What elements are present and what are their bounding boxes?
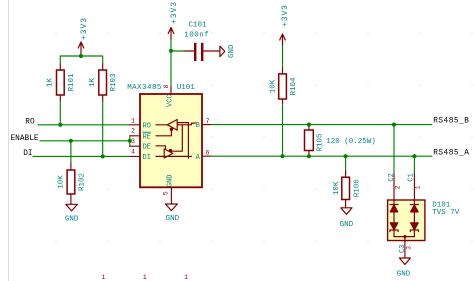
label RS485_B	[433, 118, 469, 126]
pin number 1 (bottom sheet, component cut off)	[184, 274, 188, 281]
svg-text:1: 1	[415, 185, 422, 189]
wire R104 to A line	[282, 105, 284, 157]
node junction D101-C2/B	[392, 123, 396, 127]
svg-text:DE: DE	[143, 144, 151, 152]
resistor R105	[305, 127, 376, 155]
node junction ENABLE/R102	[69, 139, 73, 143]
svg-text:3: 3	[131, 138, 135, 145]
node junction R105/B	[307, 123, 311, 127]
svg-text:R104: R104	[290, 77, 298, 96]
svg-text:2: 2	[394, 185, 401, 189]
wire A to R106	[345, 156, 347, 171]
svg-text:1: 1	[131, 117, 135, 124]
pin number 1 (bottom sheet, component cut off)	[101, 274, 105, 281]
transistor D101 TVS array body	[388, 200, 460, 241]
U101 pin 4 DI	[130, 148, 151, 162]
svg-text:120 (0.25W): 120 (0.25W)	[326, 138, 376, 146]
svg-text:VCC: VCC	[166, 94, 174, 107]
U101 pin 3 DE	[130, 138, 151, 151]
power +3V3 PWR3 (above R104)	[280, 4, 291, 46]
svg-text:RS485_B: RS485_B	[433, 118, 469, 126]
wire C101 left	[171, 50, 184, 52]
U101 pin 2 RE	[130, 128, 151, 142]
wire R103 to DI line	[102, 102, 104, 157]
svg-text:5: 5	[163, 191, 170, 195]
svg-text:GND: GND	[228, 44, 236, 58]
D101 pin C1	[407, 173, 421, 204]
wire A (pin6 to RS485_A)	[212, 155, 432, 157]
svg-text:GND: GND	[65, 216, 79, 224]
svg-text:C2: C2	[388, 173, 396, 181]
svg-text:+3V3: +3V3	[170, 1, 179, 24]
svg-text:RS485_A: RS485_A	[433, 150, 469, 158]
node junction D101-C1/A	[412, 154, 416, 158]
U101 internal DE link	[156, 146, 166, 149]
power +3V3 PWR2 (above U101 VCC)	[168, 1, 179, 40]
svg-text:RE: RE	[143, 133, 151, 141]
svg-text:+3V3: +3V3	[80, 17, 89, 40]
svg-text:DI: DI	[143, 154, 151, 162]
node junction ENABLE	[128, 139, 132, 143]
svg-text:1K: 1K	[89, 78, 97, 88]
U101 pin 7 B	[196, 118, 212, 130]
ground GND (below R106)	[340, 208, 354, 229]
wire RO	[38, 124, 130, 126]
U101 pin 6 A	[196, 149, 212, 161]
wire ENABLE to R102	[70, 141, 72, 164]
capacitor C101	[184, 22, 220, 61]
grid dots	[56, 33, 473, 242]
svg-text:1: 1	[143, 274, 147, 281]
svg-text:2: 2	[131, 128, 135, 135]
D101 internal common anode link	[394, 235, 414, 241]
svg-text:10K: 10K	[333, 181, 341, 195]
U101 pin 1 RO	[130, 117, 151, 130]
D101 diode bottom-right	[410, 223, 418, 237]
svg-text:100nf: 100nf	[184, 31, 209, 39]
pin number 1 (bottom sheet, component cut off)	[143, 274, 147, 281]
ground GND (below D101)	[397, 258, 411, 279]
svg-text:R103: R103	[110, 73, 118, 92]
svg-text:R105: R105	[317, 133, 325, 152]
U101 internal receiver triangle	[156, 120, 177, 131]
svg-text:DI: DI	[23, 150, 32, 158]
svg-text:1K: 1K	[47, 78, 55, 88]
U101 pin 5 GND	[163, 174, 175, 204]
svg-text:U101: U101	[177, 84, 196, 92]
svg-text:C1: C1	[407, 173, 415, 181]
D101 pin C3 (K)	[399, 241, 412, 259]
svg-text:3: 3	[405, 246, 412, 250]
svg-text:C101: C101	[189, 22, 208, 30]
svg-text:8: 8	[163, 84, 170, 88]
resistor R104	[270, 68, 298, 105]
node junction +3V3 rail	[79, 54, 83, 58]
label RS485_A	[433, 150, 469, 158]
svg-text:R106: R106	[354, 179, 362, 198]
D101 diode bottom-left	[390, 223, 398, 237]
wire ENABLE	[40, 140, 130, 142]
svg-text:R102: R102	[79, 173, 87, 191]
svg-text:10K: 10K	[270, 79, 278, 93]
op-amp U101 MAX3485 body	[127, 84, 202, 187]
svg-text:4: 4	[131, 148, 135, 155]
svg-text:RO: RO	[143, 122, 151, 130]
ground GND (below U101 pin 5)	[165, 204, 179, 223]
svg-text:GND: GND	[166, 215, 180, 223]
node junction R103/DI	[101, 154, 105, 158]
sheet frame left border	[8, 0, 10, 281]
svg-text:B: B	[196, 122, 200, 130]
svg-text:RO: RO	[25, 119, 35, 127]
D101 diode top-left	[390, 205, 398, 223]
ground GND (right of C101, pointing right)	[220, 44, 236, 58]
svg-text:6: 6	[206, 149, 210, 156]
U101 internal RE link	[156, 131, 171, 136]
node junction R101/RO	[58, 123, 62, 127]
label ENABLE	[11, 135, 39, 143]
svg-text:10K: 10K	[57, 175, 65, 189]
label RO	[25, 119, 35, 127]
wire R101 to RO line	[59, 102, 61, 125]
svg-text:R101: R101	[68, 73, 76, 92]
resistor R103	[89, 64, 118, 102]
svg-text:GND: GND	[397, 271, 411, 279]
svg-text:ENABLE: ENABLE	[11, 135, 39, 143]
wire B to D101 C2	[393, 125, 395, 174]
ground GND (below R102)	[65, 204, 79, 223]
node junction VCC/C101	[169, 49, 173, 53]
node junction R105/A	[307, 154, 311, 158]
svg-text:+3V3: +3V3	[281, 4, 290, 27]
resistor R101	[47, 64, 76, 102]
svg-text:7: 7	[206, 118, 210, 125]
U101 internal B link	[177, 123, 195, 125]
node junction R104/A	[280, 154, 284, 158]
resistor R102	[57, 164, 86, 205]
U101 internal RE bubble	[170, 128, 173, 131]
U101 internal driver output link	[170, 125, 182, 151]
wire DI	[33, 155, 130, 157]
wire A to D101 C1	[413, 156, 415, 174]
power +3V3 PWR1 (above R101/R103)	[78, 17, 89, 56]
D101 diode top-right	[410, 205, 418, 223]
svg-text:GND: GND	[167, 174, 175, 187]
U101 internal DE junction dot	[169, 149, 172, 152]
U101 internal receiver input step	[177, 123, 188, 159]
wire +3V3 to R104	[282, 46, 284, 68]
svg-text:TVS 7V: TVS 7V	[432, 209, 460, 217]
label DI	[23, 150, 32, 158]
wire RE/DE bracket	[129, 136, 131, 146]
svg-text:GND: GND	[340, 221, 354, 229]
svg-text:1: 1	[184, 274, 188, 281]
node junction R106/A	[344, 154, 348, 158]
D101 pin C2	[388, 173, 401, 204]
svg-text:1: 1	[101, 274, 105, 281]
U101 internal driver triangle	[156, 149, 192, 158]
svg-text:MAX3485: MAX3485	[127, 84, 162, 92]
wire +3V3 rail top-left	[60, 56, 102, 64]
wire VCC (power to pin 8)	[170, 40, 172, 87]
resistor R106	[333, 171, 362, 208]
U101 pin 8 VCC	[163, 84, 174, 107]
wire B (pin7 to RS485_B)	[212, 124, 432, 126]
